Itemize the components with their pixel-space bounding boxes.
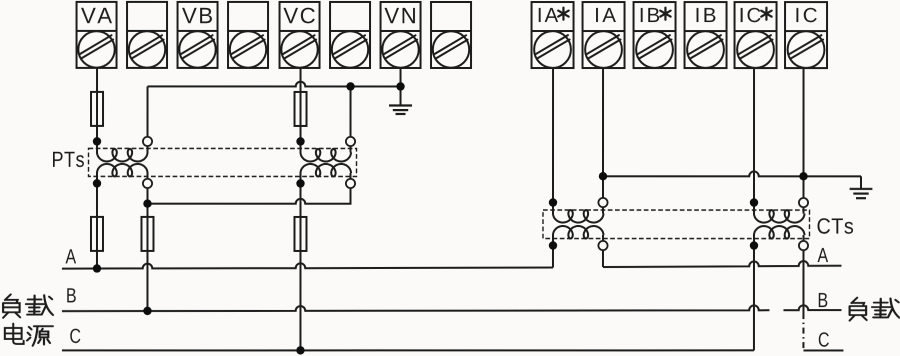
node PT2 secondary dot <box>296 179 304 187</box>
terminal IA <box>583 2 625 68</box>
CT2 secondary winding <box>754 210 805 223</box>
ground at CT earth bus <box>850 176 873 198</box>
terminal IC* <box>735 2 777 68</box>
node PT1 secondary dot <box>93 179 101 187</box>
fuse F2 (VC) <box>295 92 307 126</box>
node PT2 primary dot <box>296 137 304 145</box>
PT2 primary winding <box>301 149 352 162</box>
wire fuse F4 to line B <box>146 251 148 311</box>
line B with hops <box>62 305 842 311</box>
node CT2 primary dot <box>750 241 758 249</box>
junction dot earth bus at IC <box>799 172 807 180</box>
label A left <box>65 249 76 263</box>
node CT2 secondary polarity circle <box>799 198 808 207</box>
wire secondary common bus y203.7 with hop over PT2 wire <box>147 173 350 204</box>
CTs dashed box <box>543 210 810 239</box>
terminal IB* <box>634 2 676 68</box>
node CT1 secondary dot <box>549 198 557 206</box>
wire fuse F1 to PT1 primary <box>96 126 98 153</box>
label PTs <box>53 152 84 167</box>
wire PT1 secondary a to fuse F3 <box>96 173 98 217</box>
wire CT1 primary right to line A <box>602 235 604 267</box>
node PT1 secondary polarity circle <box>143 179 152 188</box>
node CT1 primary polarity circle <box>598 241 607 250</box>
PT1 secondary winding <box>97 164 148 177</box>
PTs dashed box <box>89 148 357 176</box>
label CTs <box>817 218 853 234</box>
junction dot line B phase B <box>143 307 151 315</box>
wire VC terminal to fuse F2 <box>300 68 302 92</box>
junction dot line A phase A <box>93 264 101 272</box>
junction dot earth bus at IA <box>599 172 607 180</box>
junction dot secondary common <box>143 199 151 207</box>
node CT1 primary dot <box>549 241 557 249</box>
terminal VC <box>280 2 320 68</box>
terminal IB <box>685 2 727 68</box>
label 负载 left (load) <box>3 294 53 317</box>
wire VA terminal to fuse F1 <box>96 68 98 92</box>
wire PT1 secondary b down <box>146 173 148 217</box>
ground at VN <box>389 86 412 114</box>
line C right <box>803 349 843 351</box>
wire CT2 primary right down <box>802 235 804 313</box>
terminal unlabeled 2 <box>127 2 167 68</box>
wire PT2 secondary c to fuse F5 <box>299 173 301 217</box>
terminal VA <box>77 2 117 68</box>
node CT2 secondary dot <box>750 198 758 206</box>
PT1 primary winding <box>97 149 148 162</box>
wire IC* to CT2 <box>753 68 755 214</box>
label B right <box>819 293 828 307</box>
wire fuse F5 to line C <box>299 251 301 350</box>
label A right <box>817 248 828 262</box>
junction dot line C phase C <box>296 346 304 354</box>
wire IA to CT1 polarity <box>602 68 604 214</box>
wire fuse F2 to PT2 primary <box>300 126 302 153</box>
node CT1 secondary polarity circle <box>598 198 607 207</box>
wire CT2 right dash-dot tail to line C <box>802 313 804 350</box>
wire VN terminal to neutral node <box>400 68 402 87</box>
label 电源 left (source) <box>5 324 53 346</box>
node PT2 secondary polarity circle <box>346 179 355 188</box>
fuse F1 (VA) <box>91 92 103 126</box>
wire CT secondary earth bus y174.5 with hop over IC* <box>603 171 861 176</box>
terminal unlabeled 6 <box>330 2 370 68</box>
wire IC to CT2 polarity <box>802 68 804 214</box>
junction dot neutral bus at VN <box>396 82 404 90</box>
node PT1 primary polarity circle <box>143 137 152 146</box>
terminal VB <box>178 2 218 68</box>
PT2 secondary winding <box>301 164 352 177</box>
wire PT1 primary return riser <box>147 86 149 152</box>
line A left <box>62 263 553 268</box>
CT1 secondary winding <box>553 210 604 223</box>
wire CT2 primary left down to line C <box>753 235 755 350</box>
node CT2 primary polarity circle <box>799 241 808 250</box>
wire neutral bus y86.5 with hop over VC wire <box>148 82 401 87</box>
label 负载 right (load) <box>850 298 900 321</box>
label C right <box>819 332 829 347</box>
terminal IA* <box>532 2 574 68</box>
line A right with hops over CT2 drops <box>603 261 842 267</box>
wire PT2 primary return riser <box>350 86 352 152</box>
fuse F4 (phase B secondary) <box>141 217 153 251</box>
CT1 primary winding <box>553 226 604 239</box>
node PT1 primary dot <box>93 137 101 145</box>
fuse F3 (phase A secondary) <box>91 217 103 251</box>
fuse F5 (phase C secondary) <box>294 217 306 251</box>
wire IA* to CT1 <box>552 68 554 214</box>
terminal unlabeled 4 <box>228 2 268 68</box>
label C left <box>70 329 80 344</box>
line C left <box>62 349 754 351</box>
node PT2 primary polarity circle <box>346 137 355 146</box>
wire CT1 primary left to line A <box>552 235 554 267</box>
wire fuse F3 to line A <box>96 251 98 269</box>
terminal unlabeled 8 <box>431 2 471 68</box>
terminal VN <box>381 2 421 68</box>
label B left <box>67 288 76 302</box>
CT2 primary winding <box>754 226 805 239</box>
terminal IC <box>785 2 827 68</box>
junction dot neutral bus at PT2 riser <box>346 82 354 90</box>
